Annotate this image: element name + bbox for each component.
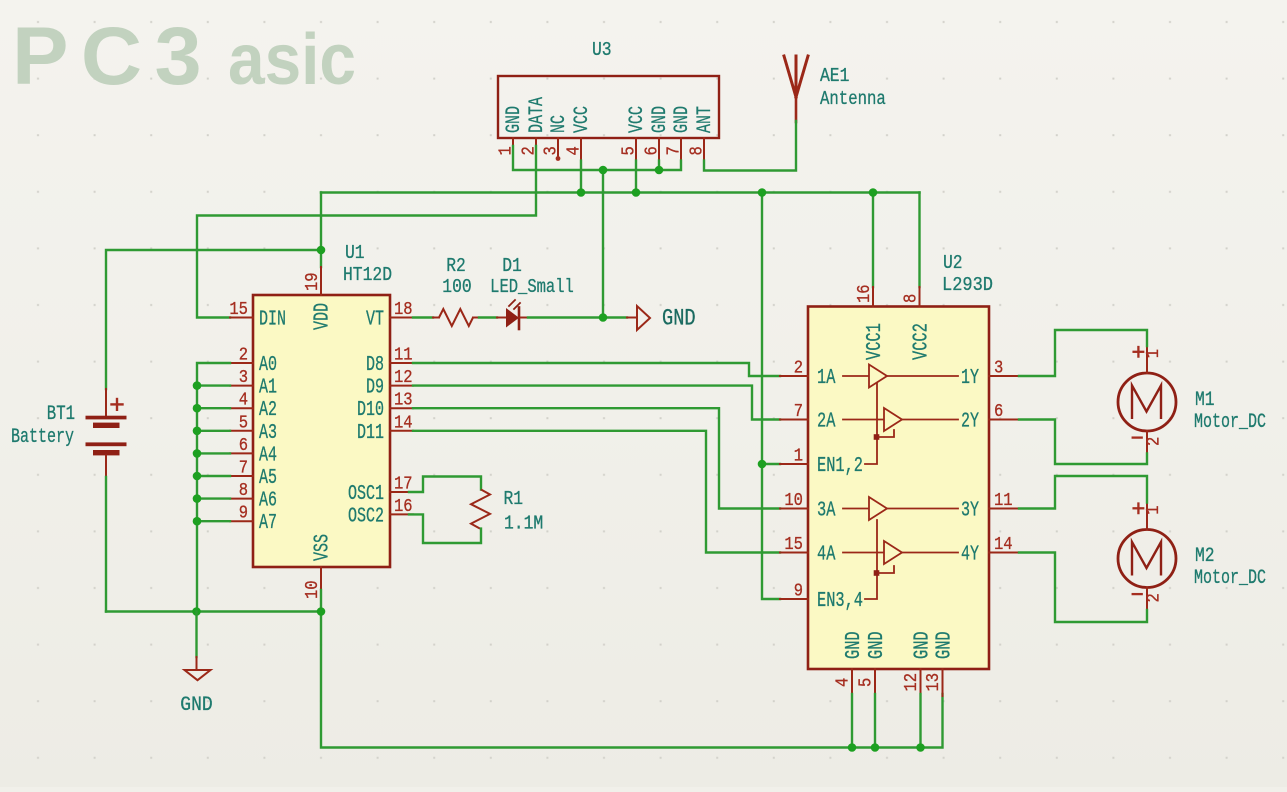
wire GND bus down to LED row	[602, 170, 604, 318]
svg-text:2: 2	[239, 346, 248, 366]
svg-text:2A: 2A	[817, 410, 836, 434]
junction column at A6	[193, 494, 202, 503]
svg-text:GND: GND	[649, 106, 672, 133]
svg-text:HT12D: HT12D	[343, 264, 392, 286]
svg-text:U1: U1	[345, 242, 365, 264]
wire U3 pin4 VCC drop	[580, 161, 582, 193]
U1 pin 2 (A0)	[230, 346, 277, 378]
U3 pin 4 (VCC)	[565, 106, 595, 161]
svg-text:D1: D1	[502, 255, 522, 277]
svg-text:A3: A3	[259, 421, 277, 445]
svg-text:6: 6	[239, 436, 248, 456]
ground symbol	[185, 657, 211, 680]
svg-text:1: 1	[794, 447, 803, 467]
svg-text:BT1: BT1	[47, 403, 75, 426]
svg-text:7: 7	[665, 146, 685, 155]
wire M1 minus to 2Y	[1019, 420, 1147, 465]
wire A5 to column	[197, 475, 230, 477]
svg-text:VCC: VCC	[626, 106, 649, 133]
svg-text:U3: U3	[592, 39, 612, 61]
U1 pin 5 (A3)	[230, 413, 277, 445]
svg-text:NC: NC	[548, 115, 571, 133]
U2 buffer channel 4	[843, 541, 958, 564]
wire R2 to D1	[479, 316, 497, 318]
svg-text:3Y: 3Y	[961, 499, 979, 523]
svg-text:13: 13	[924, 673, 944, 692]
svg-text:AE1: AE1	[820, 65, 849, 87]
svg-text:VT: VT	[366, 308, 384, 332]
svg-text:5: 5	[239, 413, 248, 433]
svg-text:5: 5	[857, 678, 877, 687]
svg-text:VCC1: VCC1	[863, 323, 887, 360]
antenna AE1	[784, 56, 808, 122]
junction column at A3	[193, 427, 202, 436]
watermark logo PCBasic	[12, 11, 356, 102]
svg-text:9: 9	[239, 504, 248, 524]
svg-text:EN1,2: EN1,2	[817, 454, 863, 478]
U1 pin 8 (A6)	[230, 481, 277, 512]
svg-text:VSS: VSS	[311, 534, 335, 561]
wire U2 GND pin drop x852	[851, 694, 853, 748]
svg-text:11: 11	[394, 346, 413, 366]
svg-text:1: 1	[1144, 349, 1164, 358]
U2 pin 15 (4A)	[780, 535, 836, 567]
svg-text:100: 100	[442, 276, 471, 298]
wire 3Y to M2 plus	[1019, 476, 1147, 509]
U2 pin 14 (4Y)	[961, 535, 1019, 567]
svg-text:2: 2	[1145, 593, 1165, 602]
wire A7 to column	[197, 520, 230, 522]
U1 pin 9 (A7)	[230, 504, 277, 536]
wire EN1,2 stub	[762, 463, 780, 465]
wire U2 GND pin drop x920.5	[919, 694, 921, 748]
global label GND at LED	[627, 306, 696, 332]
svg-text:D9: D9	[366, 376, 384, 400]
svg-text:GND: GND	[933, 631, 957, 659]
U1 pin 12 (D9)	[366, 368, 413, 400]
U1 pin 11 (D8)	[366, 346, 413, 378]
junction VCC1	[869, 188, 878, 197]
U2 pin 4 (GND) bottom	[834, 631, 867, 696]
wire D9 to 2A	[413, 386, 780, 420]
junction VCC at U3 pin5	[632, 188, 641, 197]
svg-text:14: 14	[394, 413, 413, 433]
U1 pin 18 (VT)	[366, 300, 413, 332]
wire OSC2 loop bottom	[409, 514, 481, 543]
U2 pin 13 (GND) bottom	[924, 631, 957, 696]
U2 pin 12 (GND) bottom	[902, 631, 935, 696]
wire VT to R2	[413, 316, 433, 318]
svg-text:1: 1	[1144, 505, 1164, 514]
svg-text:1Y: 1Y	[961, 366, 979, 390]
svg-text:A4: A4	[259, 443, 277, 467]
svg-text:4: 4	[565, 146, 585, 155]
U2 pin 10 (3A)	[780, 491, 836, 523]
wire D11 to 4A	[413, 431, 780, 553]
junction VCC at U3 pin4	[577, 188, 586, 197]
U2 pin 8 (VCC2) top	[902, 287, 934, 360]
svg-text:13: 13	[394, 391, 413, 411]
U3 pin 2 (DATA)	[520, 96, 550, 155]
wire A1 to column	[197, 384, 230, 386]
wire battery minus down	[105, 477, 107, 612]
svg-text:2: 2	[1145, 437, 1165, 446]
svg-text:11: 11	[994, 491, 1013, 511]
resistor R1	[471, 490, 490, 529]
U1 pin 4 (A2)	[230, 391, 277, 423]
wire D10 to 3A	[413, 408, 780, 508]
svg-text:12: 12	[394, 368, 413, 388]
wire VCC1 drop	[872, 193, 874, 288]
U1 pin 7 (A5)	[230, 459, 277, 491]
svg-text:Battery: Battery	[11, 426, 74, 449]
U2 pin 16 (VCC1) top	[855, 284, 887, 360]
svg-text:9: 9	[794, 582, 803, 602]
svg-text:GND: GND	[865, 631, 889, 659]
svg-text:asic: asic	[228, 20, 356, 100]
IC U1 body	[253, 295, 390, 567]
svg-text:8: 8	[902, 294, 922, 303]
svg-text:A5: A5	[259, 466, 277, 490]
battery BT1	[86, 389, 127, 477]
U1 pin 17 (OSC1)	[348, 475, 413, 507]
svg-text:4: 4	[834, 678, 854, 687]
svg-text:D11: D11	[357, 421, 384, 445]
U2 pin 11 (3Y)	[961, 491, 1019, 523]
U3 pin 8 (ANT)	[688, 106, 718, 161]
U1 pin 14 (D11)	[357, 413, 413, 445]
svg-text:15: 15	[229, 300, 248, 320]
junction column at A5	[193, 472, 202, 481]
U1 pin 6 (A4)	[230, 436, 277, 468]
svg-text:4A: 4A	[817, 543, 836, 567]
U2 buffer channel 2	[843, 408, 958, 431]
svg-text:M2: M2	[1195, 545, 1215, 568]
svg-text:14: 14	[994, 535, 1013, 555]
svg-text:M1: M1	[1195, 389, 1215, 412]
wire U3 GND bus pins 1-7	[513, 146, 681, 170]
U3 pin 6 (GND)	[643, 106, 673, 161]
junction GND rail / column	[192, 607, 201, 616]
svg-text:12: 12	[902, 673, 922, 692]
svg-text:DIN: DIN	[259, 308, 286, 332]
svg-text:8: 8	[239, 481, 248, 501]
svg-text:U2: U2	[943, 252, 963, 274]
svg-text:L293D: L293D	[942, 274, 993, 296]
svg-text:GND: GND	[671, 106, 694, 133]
diode D1 LED_Small	[497, 300, 528, 329]
svg-text:6: 6	[643, 146, 663, 155]
wire VCC2 drop	[918, 193, 920, 288]
IC U3 body	[498, 76, 719, 138]
svg-text:6: 6	[994, 402, 1003, 422]
U3 pin 7 (GND)	[665, 106, 695, 161]
svg-text:DATA: DATA	[526, 96, 549, 133]
U2 pin 6 (2Y)	[961, 402, 1019, 434]
svg-text:10: 10	[784, 491, 803, 511]
svg-text:D8: D8	[366, 353, 384, 377]
svg-text:15: 15	[784, 535, 803, 555]
wire U3 pin6 GND drop	[658, 161, 660, 170]
wire VCC bus	[321, 191, 920, 193]
U1 pin 13 (D10)	[357, 391, 413, 423]
junction GND bus at U3 pin6	[655, 166, 664, 175]
svg-text:4: 4	[239, 391, 248, 411]
junction GND rail x875	[871, 743, 880, 752]
wire VSS drop	[320, 590, 322, 612]
svg-text:D10: D10	[357, 398, 384, 422]
U2 buffer channel 1	[843, 365, 958, 388]
junction column at A1	[193, 381, 202, 390]
svg-text:A1: A1	[259, 376, 277, 400]
svg-text:1.1M: 1.1M	[504, 513, 543, 535]
U2 buffer channel 3	[843, 497, 958, 520]
svg-text:2Y: 2Y	[961, 410, 979, 434]
U2 enable 3,4 chain	[865, 520, 894, 599]
wire VCC to EN chain	[762, 193, 780, 600]
svg-text:Motor_DC: Motor_DC	[1194, 411, 1266, 434]
wire M2 minus to 4Y	[1019, 553, 1147, 623]
U3 pin 1 (GND)	[497, 106, 527, 156]
U2 pin 2 (1A)	[780, 359, 836, 391]
svg-text:1A: 1A	[817, 366, 836, 390]
svg-text:LED_Small: LED_Small	[490, 276, 574, 298]
svg-text:EN3,4: EN3,4	[817, 589, 863, 613]
U2 pin 3 (1Y)	[961, 359, 1019, 391]
svg-text:3A: 3A	[817, 499, 836, 523]
svg-text:R2: R2	[446, 255, 466, 277]
U1 pin 3 (A1)	[230, 368, 277, 400]
U2 pin 5 (GND) bottom	[857, 631, 890, 696]
U2 pin 9 (EN3,4)	[780, 582, 863, 614]
wire OSC1 loop top	[409, 477, 481, 493]
U1 pin 16 (OSC2)	[348, 497, 413, 529]
svg-text:PC3: PC3	[12, 11, 214, 102]
svg-text:GND: GND	[911, 631, 935, 659]
svg-text:GND: GND	[503, 106, 526, 133]
motor M1	[1118, 346, 1176, 454]
junction column at A2	[193, 404, 202, 413]
svg-text:3: 3	[994, 359, 1003, 379]
wire A4 to column	[197, 452, 230, 454]
svg-text:A7: A7	[259, 511, 277, 535]
svg-text:GND: GND	[180, 694, 212, 717]
junction LED GND node	[599, 313, 608, 322]
svg-text:ANT: ANT	[694, 106, 717, 133]
svg-text:VCC2: VCC2	[910, 323, 934, 360]
svg-text:A6: A6	[259, 489, 277, 513]
svg-text:Antenna: Antenna	[820, 88, 886, 110]
junction EN1,2	[758, 460, 767, 469]
U1 pin 19 (VDD) top	[303, 267, 335, 330]
svg-text:A2: A2	[259, 398, 277, 422]
svg-text:OSC1: OSC1	[348, 482, 384, 506]
resistor R2	[433, 309, 479, 326]
svg-text:VCC: VCC	[571, 106, 594, 133]
U3 pin 3 (NC)	[542, 115, 572, 161]
wire A6 to column	[197, 497, 230, 499]
wire U3 pin5 VCC drop	[635, 161, 637, 193]
IC U2 body	[808, 307, 989, 670]
U1 pin 10 (VSS) bottom	[303, 534, 335, 599]
svg-text:A0: A0	[259, 353, 277, 377]
junction GND bus at x603	[599, 166, 608, 175]
svg-text:4Y: 4Y	[961, 543, 979, 567]
svg-text:Motor_DC: Motor_DC	[1194, 567, 1266, 590]
wire U3 pin8 to antenna	[704, 121, 796, 171]
wire D8 to 1A	[413, 363, 780, 376]
wire GND symbol stem	[195, 612, 197, 658]
junction column at A7	[193, 517, 202, 526]
wire A3 to column	[197, 430, 230, 432]
svg-text:R1: R1	[504, 488, 524, 510]
U2 enable 1,2 chain	[865, 383, 894, 464]
wire D1 to GND label	[528, 316, 627, 318]
svg-text:2: 2	[794, 359, 803, 379]
svg-text:7: 7	[794, 402, 803, 422]
svg-text:18: 18	[394, 300, 413, 320]
wire 1Y to M1 plus	[1019, 330, 1147, 376]
svg-text:7: 7	[239, 459, 248, 479]
U1 pin 15 (DIN)	[229, 300, 286, 332]
wire U3 pin2 DATA to U1 DIN	[197, 146, 536, 318]
svg-text:VDD: VDD	[311, 303, 335, 330]
wire battery plus to VDD	[106, 250, 321, 389]
U2 pin 7 (2A)	[780, 402, 836, 434]
svg-text:OSC2: OSC2	[348, 504, 384, 528]
svg-text:3: 3	[239, 368, 248, 388]
svg-text:8: 8	[688, 146, 708, 155]
wire U2 GND pin drop x875	[874, 694, 876, 748]
svg-text:3: 3	[542, 146, 562, 155]
svg-text:GND: GND	[842, 631, 866, 659]
svg-text:16: 16	[855, 284, 875, 303]
svg-text:GND: GND	[662, 306, 696, 332]
U2 pin 1 (EN1,2)	[780, 447, 863, 479]
wire VDD riser	[320, 193, 322, 268]
junction column at A4	[193, 449, 202, 458]
junction battery/VDD node	[317, 246, 326, 255]
junction EN bus at VCC	[758, 188, 767, 197]
junction GND rail / VSS	[317, 607, 326, 616]
wire A2 to column	[197, 407, 230, 409]
junction GND rail x852	[848, 743, 857, 752]
U3 pin 5 (VCC)	[620, 106, 650, 161]
junction GND rail x920.5	[916, 743, 925, 752]
wire A0 and address column	[197, 363, 230, 612]
svg-text:19: 19	[303, 272, 323, 291]
wire bottom GND rail	[106, 612, 943, 748]
svg-text:5: 5	[620, 146, 640, 155]
motor M2	[1118, 503, 1176, 611]
